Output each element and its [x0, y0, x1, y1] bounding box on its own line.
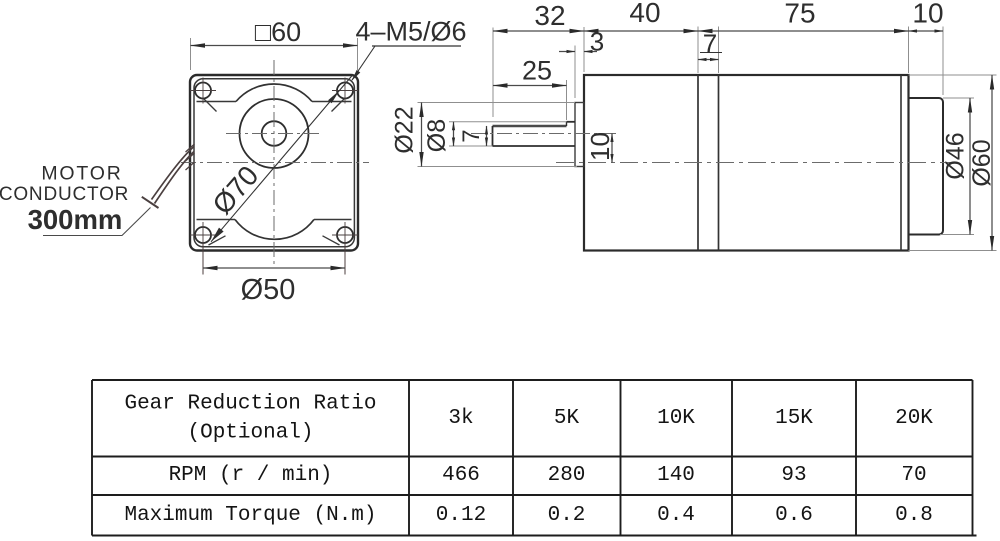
svg-text:Gear Reduction Ratio: Gear Reduction Ratio: [124, 393, 376, 416]
svg-text:10K: 10K: [657, 407, 695, 430]
leader arrow 4-M5 to hole: [352, 46, 375, 80]
table divider col5: [855, 380, 857, 536]
svg-text:MOTOR: MOTOR: [41, 163, 122, 185]
dimension 3 right arrow: [584, 51, 597, 53]
motor body outline: [584, 75, 909, 251]
svg-text:3: 3: [590, 27, 604, 57]
table divider col4: [731, 380, 733, 536]
mounting hole bottom-right: [332, 222, 358, 248]
diameter 70 dimension diagonal line: [211, 75, 353, 242]
extension line boss bottom: [418, 166, 578, 168]
svg-text:Ø60: Ø60: [968, 139, 996, 186]
extension line divider2 vertical: [718, 27, 720, 74]
diameter 50 extension lines: [202, 244, 204, 275]
table line below header: [92, 456, 973, 458]
motor wire upper: [152, 147, 195, 200]
svg-text:93: 93: [781, 464, 806, 487]
svg-text:Ø8: Ø8: [423, 119, 451, 152]
front view inner housing outline: [194, 79, 354, 247]
face plate top line right segment: [312, 101, 352, 103]
dimension 10 offset vertical line: [611, 134, 613, 163]
svg-text:Ø70: Ø70: [206, 160, 264, 220]
extension line body end vertical: [908, 27, 910, 74]
shaft tip edge: [492, 126, 494, 146]
svg-text:7: 7: [703, 29, 717, 59]
mounting hole top-left: [190, 78, 216, 104]
svg-text:4–M5/Ø6: 4–M5/Ø6: [355, 17, 466, 47]
wire hatch ticks at left edge: [186, 144, 195, 170]
corner chamfer bottom-right: [323, 236, 340, 245]
shaft boss circle (medium): [240, 99, 309, 168]
dimension 25 line: [493, 85, 567, 87]
mounting hole bottom-left: [190, 222, 216, 248]
svg-text:5K: 5K: [554, 407, 580, 430]
svg-text:0.6: 0.6: [775, 504, 813, 527]
underline of 4-M5 label: [372, 45, 461, 47]
dimension 3 left arrow: [559, 51, 575, 53]
table right border: [972, 380, 974, 536]
table divider col3: [620, 380, 622, 536]
table divider col2: [512, 380, 514, 536]
svg-text:RPM (r / min): RPM (r / min): [169, 464, 333, 487]
extension line shaft tip vertical: [492, 28, 494, 118]
extension line shaft bottom left: [449, 145, 493, 147]
leader line for 300mm label: [43, 208, 151, 236]
extension line cap end vertical: [942, 27, 944, 96]
dimension diam46 vertical line: [969, 98, 971, 235]
svg-text:20K: 20K: [895, 407, 933, 430]
svg-text:(Optional): (Optional): [187, 422, 313, 445]
shaft flat end step: [566, 122, 568, 126]
extension line shaft top diam8: [449, 121, 567, 123]
svg-text:0.4: 0.4: [657, 504, 695, 527]
extension line plate left vertical: [574, 46, 576, 99]
corner chamfer top-right: [332, 99, 345, 112]
svg-text:□60: □60: [255, 17, 301, 47]
vertical centerline front view: [273, 60, 275, 267]
svg-text:0.2: 0.2: [548, 504, 586, 527]
extension line boss top: [418, 102, 576, 104]
gearbox-motor divider line 2: [718, 75, 720, 251]
shaft flat line: [493, 125, 567, 128]
dimension 7 flat vertical line: [486, 126, 488, 146]
dimension diam22 vertical line: [421, 103, 423, 167]
horizontal centerline front view middle: [181, 162, 369, 164]
rear ring line: [900, 75, 902, 251]
svg-text:Ø22: Ø22: [391, 106, 419, 153]
motor wire lower: [155, 152, 195, 204]
dimension square 60 line: [191, 45, 358, 47]
svg-text:466: 466: [442, 464, 480, 487]
table line below rpm row: [92, 494, 973, 496]
wire ferrule tick: [142, 197, 159, 208]
table divider col1: [408, 380, 410, 536]
table bottom border: [92, 535, 977, 537]
svg-text:75: 75: [784, 0, 815, 29]
svg-text:7: 7: [458, 129, 485, 142]
svg-text:10: 10: [912, 0, 943, 29]
extension line body top right: [909, 74, 997, 76]
svg-text:70: 70: [901, 464, 926, 487]
svg-text:0.12: 0.12: [436, 504, 486, 527]
face plate bottom line right segment: [314, 219, 352, 221]
shaft bottom line: [493, 145, 576, 147]
dimension square 60 extension lines: [190, 38, 192, 70]
top boss arc: [236, 84, 312, 102]
dimension 75 line: [698, 30, 909, 32]
shaft centerline: [471, 133, 619, 135]
svg-text:300mm: 300mm: [28, 204, 123, 235]
dimension 32 line: [493, 30, 584, 32]
horizontal centerline through shaft: [226, 133, 322, 135]
svg-text:Maximum Torque (N.m): Maximum Torque (N.m): [124, 504, 376, 527]
extension line cap bottom right: [940, 234, 974, 236]
extension line body bottom right: [909, 250, 997, 252]
shaft full-diameter top segment: [567, 121, 576, 123]
corner chamfer bottom-left: [209, 236, 226, 245]
svg-text:280: 280: [548, 464, 586, 487]
dimension 7 band arrows: [698, 59, 719, 61]
extension line face vertical: [583, 27, 585, 72]
front view outer square housing: [190, 75, 358, 251]
motor centerline: [556, 162, 952, 164]
svg-text:10: 10: [585, 132, 615, 161]
svg-text:32: 32: [534, 0, 565, 31]
svg-text:CONDUCTOR: CONDUCTOR: [0, 184, 129, 205]
diameter 70 upper arrowhead: [328, 90, 339, 103]
svg-text:0.8: 0.8: [895, 504, 933, 527]
svg-text:40: 40: [629, 0, 660, 28]
extension line divider1 vertical: [697, 27, 699, 74]
diameter 50 dimension line: [203, 267, 345, 269]
dimension 7 band underline: [700, 52, 722, 54]
dimension diam8 vertical line: [453, 122, 455, 146]
table left border: [91, 380, 93, 536]
dimension diam60 vertical line: [991, 75, 993, 251]
extension line flat end vertical: [566, 80, 568, 120]
svg-text:15K: 15K: [775, 407, 813, 430]
svg-text:25: 25: [522, 56, 552, 86]
dimension 40 line: [584, 30, 698, 32]
table top border: [92, 379, 973, 381]
diameter 70 lower arrowhead: [211, 228, 224, 242]
mounting hole top-right: [332, 78, 358, 104]
svg-text:Ø50: Ø50: [241, 274, 296, 306]
dimension 10 line: [909, 30, 944, 32]
corner chamfer top-left: [204, 99, 217, 112]
face plate top line left segment: [197, 101, 237, 103]
svg-text:Ø46: Ø46: [942, 132, 970, 179]
bottom gear chamber arc: [235, 220, 314, 240]
extension line cap top right: [943, 97, 974, 99]
gearbox-motor divider line 1: [697, 75, 699, 251]
front boss plate: [575, 103, 584, 167]
face plate bottom line left segment: [197, 219, 236, 221]
output shaft circle (small): [262, 121, 287, 146]
rear end cap: [909, 98, 944, 235]
svg-text:140: 140: [657, 464, 695, 487]
svg-text:3k: 3k: [448, 407, 473, 430]
